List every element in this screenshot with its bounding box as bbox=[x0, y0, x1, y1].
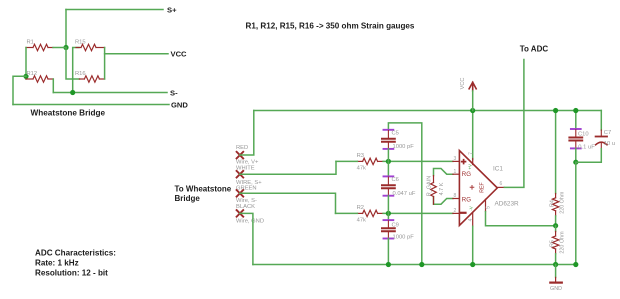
svg-text:VCC: VCC bbox=[171, 50, 188, 59]
wire C10 bottom to cap node bbox=[575, 148, 577, 162]
svg-text:Wheatstone Bridge: Wheatstone Bridge bbox=[31, 108, 106, 117]
svg-text:Wire, GND: Wire, GND bbox=[236, 218, 264, 224]
svg-text:1000 pF: 1000 pF bbox=[393, 234, 415, 240]
svg-text:C7: C7 bbox=[604, 130, 611, 136]
svg-text:7: 7 bbox=[468, 152, 474, 155]
wire GND bottom rail bbox=[253, 264, 576, 266]
junction ground column on bottom rail bbox=[419, 262, 424, 267]
wire R12 right to S- rail bbox=[52, 79, 54, 93]
svg-text:GND: GND bbox=[171, 100, 188, 109]
svg-text:R16: R16 bbox=[75, 71, 86, 77]
wire rail to C10 bbox=[575, 111, 577, 130]
junction rail / C10 bbox=[573, 108, 578, 113]
junction cap bottom node bbox=[573, 160, 578, 165]
wire-end X GND bbox=[237, 210, 244, 217]
svg-text:6: 6 bbox=[500, 181, 503, 187]
wire C7 bottom to cap node bbox=[576, 149, 602, 163]
svg-text:220 Ohm: 220 Ohm bbox=[560, 191, 566, 214]
svg-text:47k: 47k bbox=[357, 166, 366, 172]
wire RG bottom hook bbox=[434, 197, 453, 204]
wire R15 left drop to S- rail bbox=[73, 48, 79, 93]
pin 5 REF stub bbox=[485, 199, 487, 211]
svg-text:R5: R5 bbox=[549, 240, 555, 247]
pin 4 stub bbox=[472, 212, 474, 226]
wire S- input to R2 row bbox=[240, 193, 336, 213]
wire C9 bottom to bottom rail bbox=[387, 239, 389, 265]
wire S- rail bbox=[53, 92, 167, 94]
capacitor C7 (polarized) bbox=[596, 130, 607, 149]
svg-text:RED: RED bbox=[236, 145, 248, 151]
svg-text:S-: S- bbox=[170, 88, 178, 97]
svg-text:RG: RG bbox=[462, 171, 471, 178]
wire C6 bottom to R2 node bbox=[387, 196, 389, 214]
svg-text:RG: RG bbox=[462, 197, 471, 204]
resistor R15 bbox=[76, 44, 105, 50]
svg-text:BLACK: BLACK bbox=[236, 204, 255, 210]
svg-text:REF: REF bbox=[480, 182, 486, 192]
svg-text:47k: 47k bbox=[357, 218, 366, 224]
svg-text:C5: C5 bbox=[392, 130, 399, 136]
wire V+ to top rail bbox=[240, 111, 254, 156]
wire C5 top jog to ground column bbox=[388, 123, 421, 265]
wire RG top hook bbox=[434, 169, 453, 176]
resistor R1 bbox=[26, 44, 53, 50]
svg-text:R1, R12, R15, R16 -> 350 ohm S: R1, R12, R15, R16 -> 350 ohm Strain gaug… bbox=[246, 21, 415, 30]
junction R3/C5/C6 node bbox=[386, 159, 391, 164]
svg-text:VCC: VCC bbox=[460, 78, 466, 90]
wire GND input to bottom rail bbox=[240, 213, 253, 264]
plus-input diamond bbox=[462, 160, 466, 164]
wire rail to R4 bbox=[555, 111, 557, 194]
svg-text:220 Ohm: 220 Ohm bbox=[560, 231, 566, 254]
wire S+ horizontal bbox=[66, 9, 163, 11]
svg-text:ADC Characteristics:: ADC Characteristics: bbox=[35, 248, 116, 257]
junction REF / divider mid bbox=[553, 223, 558, 228]
svg-text:Wire, S-: Wire, S- bbox=[236, 198, 257, 204]
wire-end X S- bbox=[237, 190, 244, 197]
svg-text:IC1: IC1 bbox=[493, 166, 503, 173]
wire R3 row bbox=[336, 160, 453, 162]
junction R2/C6/C9 node bbox=[386, 211, 391, 216]
wire mid node to R5 bbox=[555, 226, 557, 232]
pin 6 stub bbox=[497, 186, 504, 188]
svg-text:1000 pF: 1000 pF bbox=[393, 144, 415, 150]
svg-text:C6: C6 bbox=[392, 177, 399, 183]
wire C5 bottom to R3 node bbox=[387, 149, 389, 162]
wire REF to divider bbox=[486, 212, 556, 226]
svg-text:R_GAIN: R_GAIN bbox=[427, 176, 433, 197]
svg-text:To ADC: To ADC bbox=[520, 45, 549, 54]
junction S+ node bbox=[63, 45, 68, 50]
wire output to ADC bbox=[504, 60, 524, 188]
junction VCC rail / pin7 bbox=[470, 108, 475, 113]
minus-input bar bbox=[461, 212, 466, 214]
svg-text:+V: +V bbox=[467, 163, 472, 170]
resistor R3 bbox=[357, 158, 383, 164]
wire R2 row bbox=[336, 212, 453, 214]
svg-text:GREEN: GREEN bbox=[236, 186, 257, 192]
wire left vertical R1 to R12 bbox=[25, 48, 27, 80]
svg-text:R1: R1 bbox=[27, 40, 34, 46]
svg-text:8: 8 bbox=[454, 193, 457, 199]
capacitor C5 bbox=[382, 130, 395, 149]
svg-text:To Wheatstone: To Wheatstone bbox=[175, 184, 232, 193]
wire R2 node to C9 bbox=[387, 213, 389, 220]
wire R4 to mid node bbox=[555, 216, 557, 226]
wire R3 node to C6 bbox=[387, 161, 389, 176]
wire-end X S+ bbox=[237, 171, 244, 178]
wire VCC top rail bbox=[254, 110, 602, 112]
ground symbol GND bbox=[550, 265, 562, 283]
svg-text:S+: S+ bbox=[167, 5, 177, 14]
pin 4 wire to bottom rail bbox=[472, 226, 474, 264]
junction left bridge node bbox=[23, 74, 28, 79]
svg-text:C10: C10 bbox=[578, 132, 589, 138]
junction R5 / GND on bottom rail bbox=[553, 262, 558, 267]
wire rail corner to C7 bbox=[600, 111, 602, 131]
wire GND rail bbox=[13, 104, 169, 106]
wire cap node down to bottom rail bbox=[575, 162, 577, 264]
pin 7 V+ wire bbox=[472, 111, 474, 160]
svg-text:Resolution: 12 - bit: Resolution: 12 - bit bbox=[35, 268, 108, 277]
op-amp U1 triangle bbox=[459, 151, 497, 226]
svg-text:R4: R4 bbox=[549, 200, 555, 207]
wire VCC tap bbox=[105, 53, 168, 55]
pin 8 stub bbox=[453, 198, 460, 200]
resistor R2 bbox=[357, 210, 383, 216]
svg-text:2: 2 bbox=[454, 208, 457, 214]
resistor R4 bbox=[552, 194, 558, 216]
svg-text:R2: R2 bbox=[357, 205, 364, 211]
svg-text:GND: GND bbox=[550, 286, 562, 292]
svg-text:Bridge: Bridge bbox=[175, 194, 201, 203]
pin 3 stub bbox=[453, 160, 460, 162]
pin 2 stub bbox=[453, 212, 460, 214]
wire VCC symbol to rail bbox=[472, 91, 474, 111]
svg-text:WHITE: WHITE bbox=[236, 166, 255, 172]
resistor R12 bbox=[26, 76, 53, 82]
pin 1 stub bbox=[453, 173, 460, 175]
svg-text:4: 4 bbox=[468, 218, 474, 221]
capacitor C9 bbox=[382, 220, 395, 238]
wire S+ input to R3 row bbox=[240, 161, 336, 174]
center plus mark bbox=[470, 186, 474, 190]
svg-text:1: 1 bbox=[454, 169, 457, 175]
resistor R_GAIN bbox=[431, 176, 437, 205]
junction rail / R4 bbox=[553, 108, 558, 113]
wire R1 right to S+ node bbox=[53, 47, 66, 49]
svg-text:R3: R3 bbox=[357, 153, 364, 159]
svg-text:0.1 uF: 0.1 uF bbox=[578, 144, 595, 150]
junction caps column on bottom rail bbox=[573, 262, 578, 267]
junction pin4 on bottom rail bbox=[470, 262, 475, 267]
wire R5 to bottom rail bbox=[555, 254, 557, 265]
pin 7 stub bbox=[472, 159, 474, 165]
wire left node to GND drop bbox=[13, 76, 26, 104]
capacitor C10 bbox=[569, 129, 582, 148]
svg-text:R15: R15 bbox=[75, 40, 86, 46]
svg-text:3: 3 bbox=[454, 156, 457, 162]
capacitor C6 bbox=[382, 176, 395, 195]
svg-text:5: 5 bbox=[486, 206, 492, 209]
junction C9 on bottom rail bbox=[386, 262, 391, 267]
wire right bridge vertical R15-R16 bbox=[104, 48, 106, 80]
svg-text:AD623R: AD623R bbox=[495, 201, 520, 208]
wire-end X V+ bbox=[237, 152, 244, 159]
svg-text:4.7 K: 4.7 K bbox=[439, 182, 445, 195]
svg-text:Rate: 1 kHz: Rate: 1 kHz bbox=[35, 259, 79, 268]
resistor R5 bbox=[552, 231, 558, 253]
svg-text:0.047 uF: 0.047 uF bbox=[393, 191, 416, 197]
junction R15-drop on S- rail bbox=[70, 90, 75, 95]
resistor R16 bbox=[79, 76, 104, 82]
svg-text:10 u: 10 u bbox=[604, 141, 615, 147]
svg-text:C9: C9 bbox=[392, 223, 399, 229]
wire S+ node down to R16 row bbox=[66, 48, 79, 80]
svg-text:R12: R12 bbox=[27, 71, 38, 77]
wire S+ vertical drop bbox=[65, 10, 67, 48]
supply VCC arrow bbox=[469, 82, 476, 91]
